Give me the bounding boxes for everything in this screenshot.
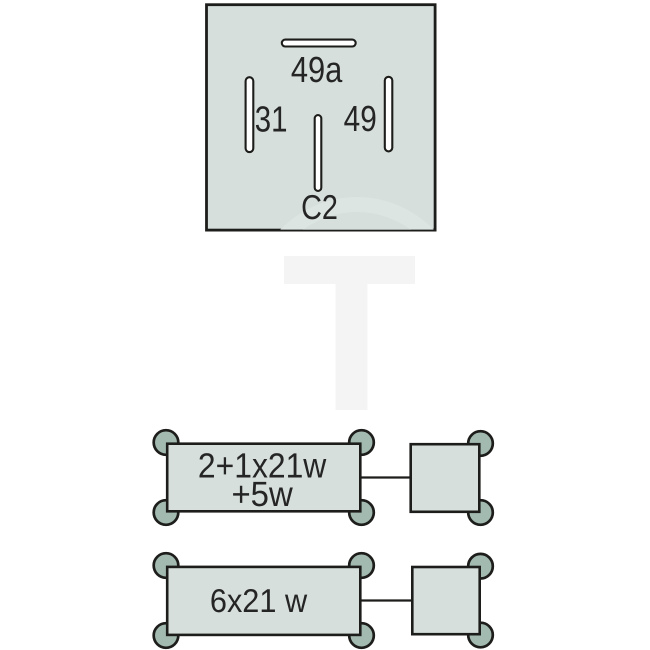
svg-text:+5w: +5w: [231, 475, 293, 514]
wire row 1: [362, 476, 411, 478]
wire row 2: [362, 599, 413, 601]
pilot block 1: corner pins: [468, 431, 493, 525]
lamp load block 1 (2+1x21w +5w): [167, 444, 360, 512]
svg-text:C2: C2: [301, 189, 338, 227]
relay body (socket outline): [207, 5, 436, 230]
watermark letter T: [284, 256, 415, 410]
pin slot 31 (left vertical): [246, 77, 254, 152]
lamp load block 2: corner pins: [154, 553, 374, 648]
pin slot 49 (right vertical): [385, 77, 393, 152]
svg-text:31: 31: [255, 98, 288, 139]
pilot block 2: corner pins: [468, 554, 493, 647]
lamp load block 1: corner pins: [154, 430, 374, 525]
svg-text:49: 49: [344, 98, 377, 139]
pin slot C2 (center vertical): [315, 115, 322, 191]
pin slot 49a (horizontal): [282, 40, 356, 47]
svg-text:6x21 w: 6x21 w: [210, 582, 307, 619]
watermark arc inside relay body: [245, 197, 469, 437]
svg-text:49a: 49a: [291, 49, 343, 90]
lamp load block 2 (6x21 w): [167, 567, 360, 635]
pilot block 2 (square): [412, 567, 479, 634]
pilot block 1 (square): [411, 444, 480, 512]
